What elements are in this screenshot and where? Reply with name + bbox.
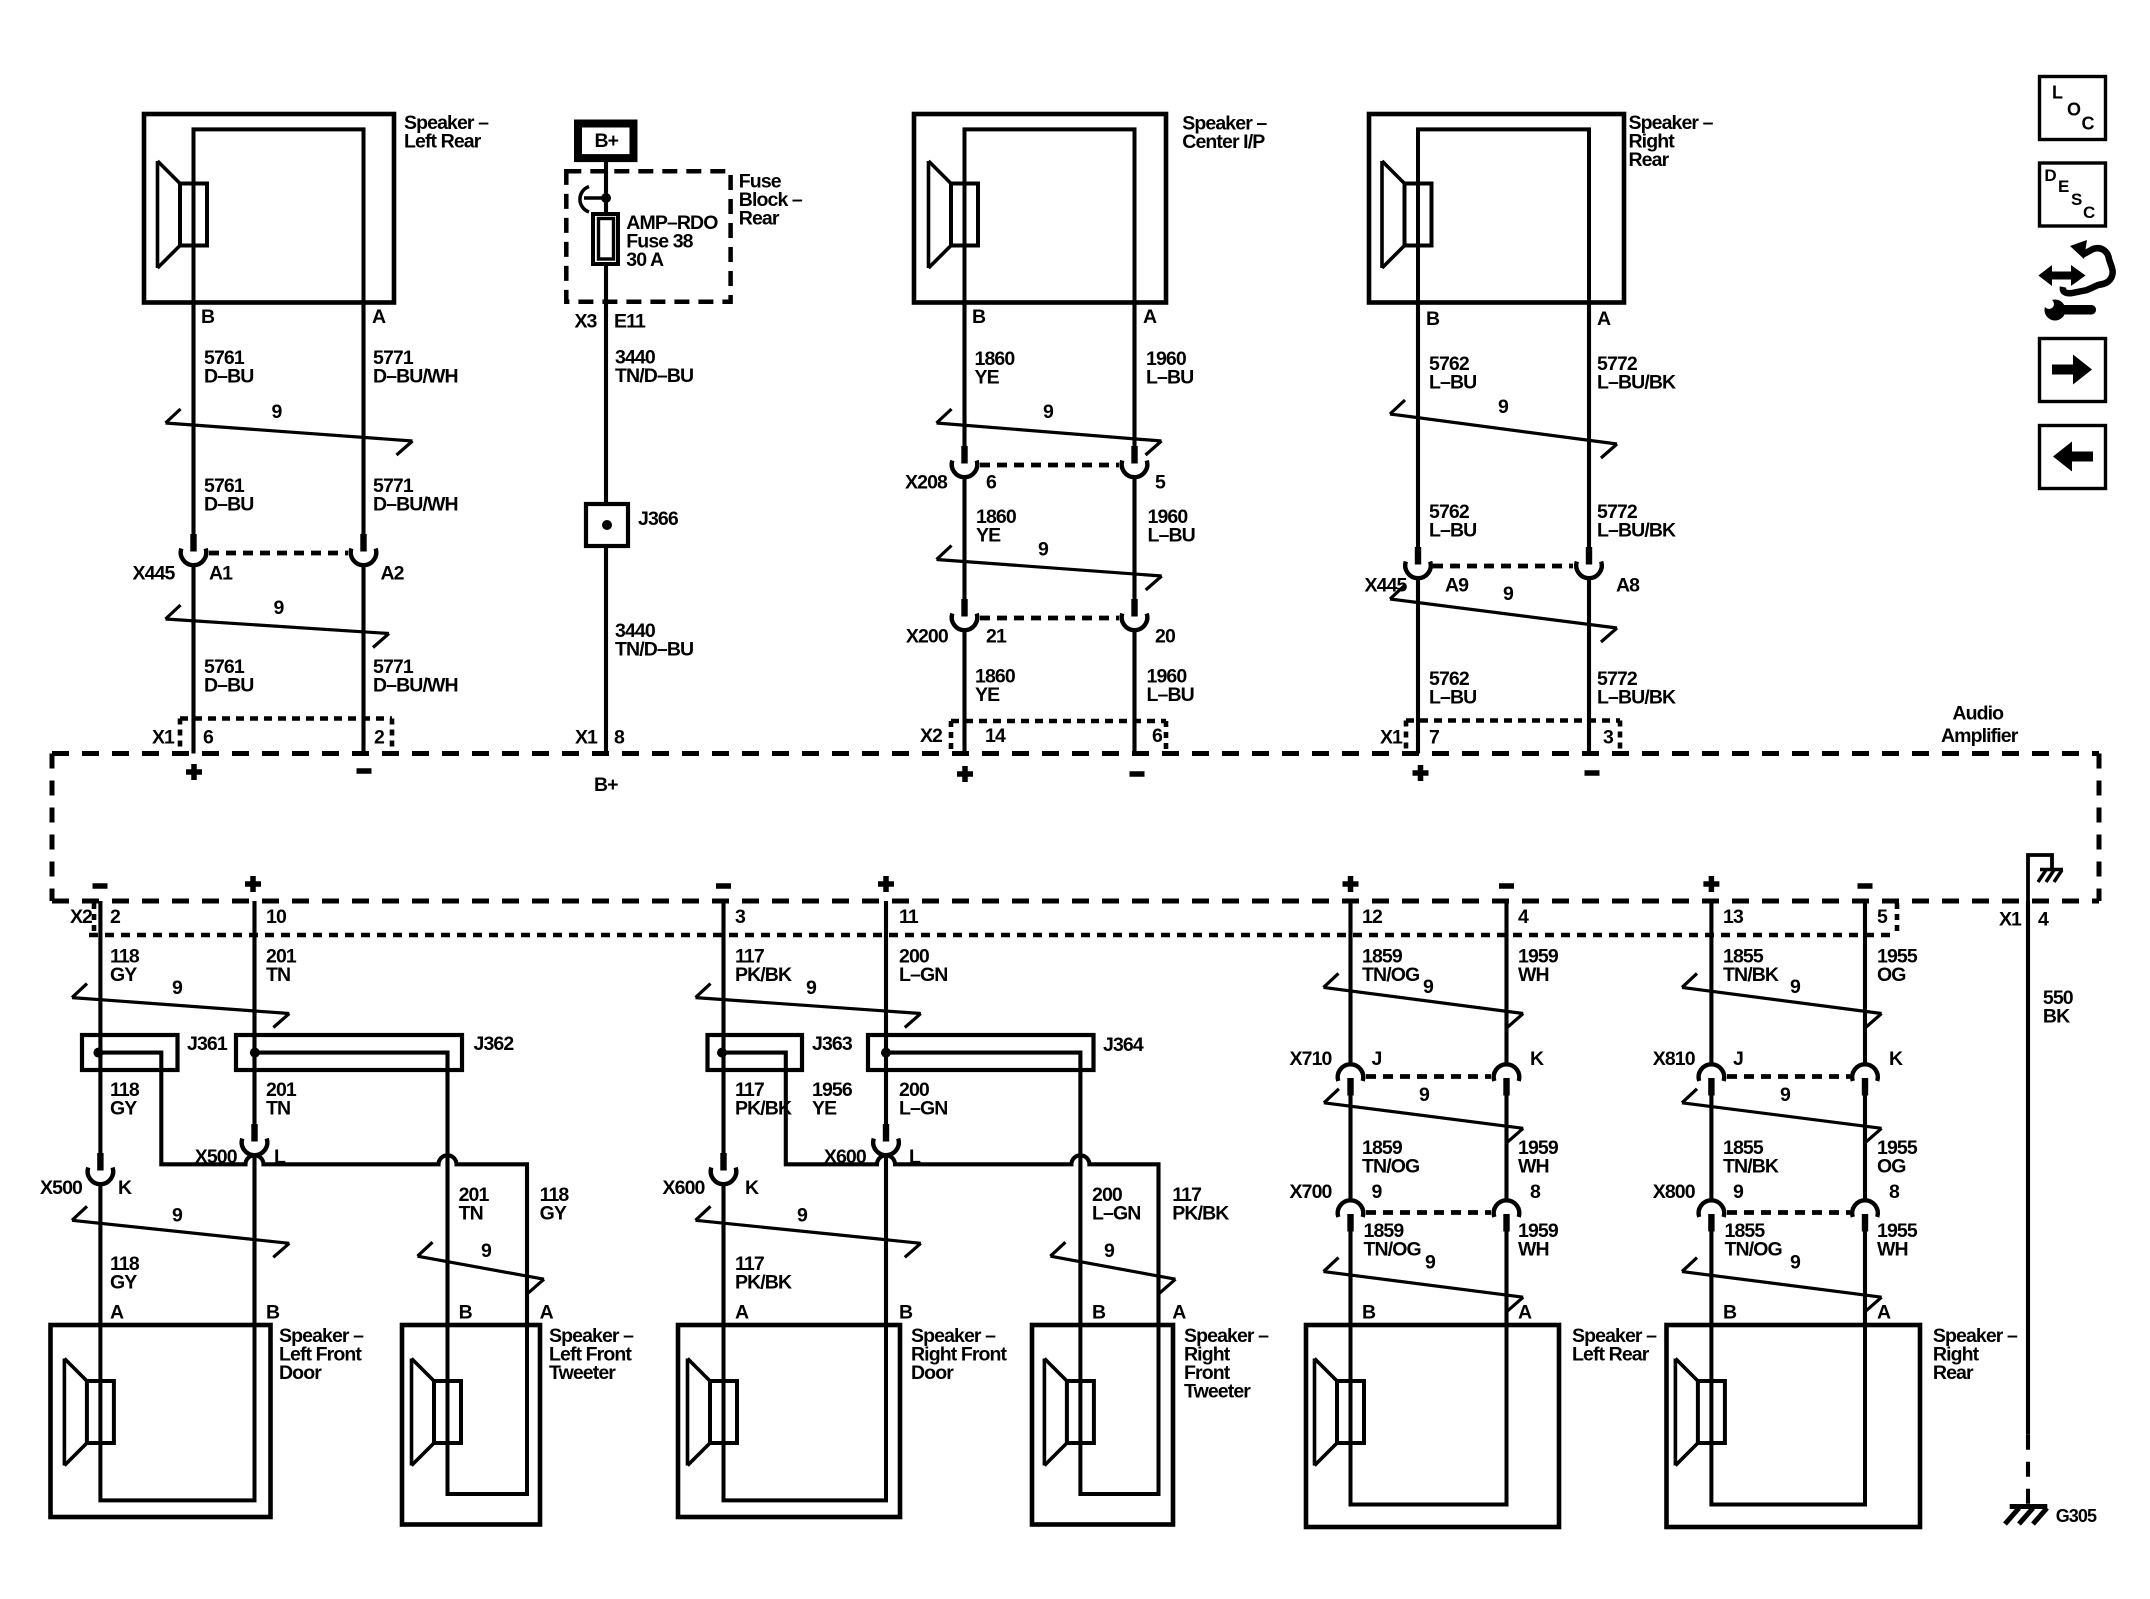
svg-text:TN/OG: TN/OG	[1362, 1156, 1419, 1178]
svg-text:YE: YE	[812, 1098, 837, 1120]
svg-text:S: S	[2071, 190, 2082, 209]
svg-text:9: 9	[1043, 401, 1054, 423]
svg-text:WH: WH	[1518, 1156, 1549, 1178]
svg-text:Left Rear: Left Rear	[404, 131, 482, 153]
svg-text:PK/BK: PK/BK	[735, 1098, 792, 1120]
svg-text:GY: GY	[540, 1203, 567, 1225]
svg-text:9: 9	[1790, 1252, 1801, 1274]
svg-text:K: K	[745, 1177, 759, 1199]
svg-text:Rear: Rear	[1933, 1362, 1974, 1384]
svg-text:2: 2	[374, 727, 385, 749]
svg-text:TN/OG: TN/OG	[1362, 964, 1419, 986]
svg-text:10: 10	[266, 906, 287, 928]
svg-text:4: 4	[1518, 906, 1529, 928]
svg-text:J362: J362	[474, 1033, 515, 1055]
svg-text:14: 14	[985, 725, 1006, 747]
svg-text:9: 9	[1425, 1252, 1436, 1274]
svg-text:B: B	[1362, 1302, 1376, 1324]
svg-text:J: J	[1372, 1048, 1382, 1070]
svg-text:9: 9	[481, 1240, 492, 1262]
svg-text:6: 6	[1152, 725, 1163, 747]
svg-text:B: B	[1426, 308, 1440, 330]
svg-text:PK/BK: PK/BK	[1172, 1203, 1229, 1225]
svg-text:L–BU: L–BU	[1429, 520, 1476, 542]
svg-text:D–BU: D–BU	[204, 494, 254, 516]
svg-text:A2: A2	[381, 563, 405, 585]
svg-text:X500: X500	[40, 1177, 83, 1199]
svg-text:K: K	[1530, 1048, 1544, 1070]
svg-text:L–BU/BK: L–BU/BK	[1597, 687, 1676, 709]
svg-text:X445: X445	[1365, 575, 1408, 597]
svg-text:X700: X700	[1290, 1181, 1333, 1203]
svg-text:X710: X710	[1290, 1048, 1333, 1070]
svg-text:A: A	[372, 306, 386, 328]
svg-text:A: A	[1877, 1302, 1891, 1324]
svg-text:J: J	[1733, 1048, 1743, 1070]
svg-text:X1: X1	[152, 727, 175, 749]
svg-text:TN: TN	[266, 1098, 290, 1120]
svg-text:GY: GY	[110, 964, 137, 986]
svg-text:L–GN: L–GN	[899, 1098, 947, 1120]
svg-text:Center I/P: Center I/P	[1182, 131, 1265, 153]
svg-text:J361: J361	[187, 1033, 228, 1055]
svg-text:TN/BK: TN/BK	[1723, 964, 1779, 986]
svg-text:WH: WH	[1877, 1239, 1908, 1261]
svg-text:X800: X800	[1653, 1181, 1696, 1203]
svg-text:YE: YE	[975, 684, 1000, 706]
svg-text:GY: GY	[110, 1272, 137, 1294]
svg-text:30 A: 30 A	[626, 249, 664, 271]
svg-text:OG: OG	[1877, 1156, 1906, 1178]
svg-text:9: 9	[1423, 976, 1434, 998]
svg-text:L–BU: L–BU	[1148, 525, 1195, 547]
svg-text:X3: X3	[574, 311, 597, 333]
svg-text:Rear: Rear	[739, 208, 780, 230]
svg-text:X2: X2	[70, 906, 93, 928]
svg-text:BK: BK	[2043, 1006, 2070, 1028]
svg-text:B+: B+	[594, 774, 618, 796]
svg-text:TN/D–BU: TN/D–BU	[615, 639, 693, 661]
svg-text:O: O	[2067, 100, 2081, 120]
svg-text:Door: Door	[279, 1362, 322, 1384]
svg-text:L: L	[909, 1146, 921, 1168]
svg-text:20: 20	[1155, 626, 1176, 648]
svg-text:YE: YE	[976, 525, 1001, 547]
svg-text:D: D	[2044, 166, 2056, 185]
svg-text:OG: OG	[1877, 964, 1906, 986]
svg-text:WH: WH	[1518, 964, 1549, 986]
svg-text:3: 3	[1603, 727, 1614, 749]
svg-text:B: B	[201, 306, 215, 328]
svg-text:X1: X1	[1380, 727, 1403, 749]
svg-text:J366: J366	[638, 508, 679, 530]
svg-text:WH: WH	[1518, 1239, 1549, 1261]
svg-text:9: 9	[1780, 1084, 1791, 1106]
svg-text:8: 8	[614, 727, 625, 749]
svg-text:7: 7	[1429, 727, 1439, 749]
svg-text:Left Rear: Left Rear	[1572, 1344, 1650, 1366]
svg-text:TN: TN	[266, 964, 290, 986]
svg-text:TN/OG: TN/OG	[1364, 1239, 1421, 1261]
svg-text:TN/OG: TN/OG	[1725, 1239, 1782, 1261]
svg-text:Door: Door	[911, 1362, 954, 1384]
svg-text:5: 5	[1155, 472, 1166, 494]
svg-text:L: L	[2052, 83, 2063, 103]
svg-text:X600: X600	[663, 1177, 706, 1199]
svg-text:X1: X1	[575, 727, 598, 749]
svg-text:J364: J364	[1103, 1034, 1144, 1056]
svg-text:L–BU: L–BU	[1146, 367, 1193, 389]
svg-text:D–BU: D–BU	[204, 366, 254, 388]
svg-text:8: 8	[1530, 1181, 1541, 1203]
svg-text:A: A	[1172, 1302, 1186, 1324]
svg-text:A9: A9	[1445, 575, 1469, 597]
svg-text:X500: X500	[195, 1146, 238, 1168]
svg-text:Amplifier: Amplifier	[1941, 725, 2019, 747]
svg-text:X2: X2	[920, 725, 943, 747]
svg-text:X810: X810	[1653, 1048, 1696, 1070]
svg-text:Tweeter: Tweeter	[1184, 1381, 1251, 1403]
svg-text:YE: YE	[975, 367, 1000, 389]
svg-text:C: C	[2082, 114, 2095, 134]
svg-text:21: 21	[986, 626, 1007, 648]
svg-text:9: 9	[1790, 976, 1801, 998]
svg-text:A8: A8	[1616, 575, 1640, 597]
svg-text:TN/D–BU: TN/D–BU	[615, 365, 693, 387]
svg-text:D–BU/WH: D–BU/WH	[373, 494, 458, 516]
svg-text:9: 9	[272, 401, 283, 423]
svg-text:9: 9	[1498, 396, 1509, 418]
svg-text:D–BU: D–BU	[204, 675, 254, 697]
svg-text:11: 11	[899, 906, 919, 928]
svg-text:A1: A1	[209, 563, 233, 585]
svg-text:9: 9	[172, 977, 183, 999]
svg-text:9: 9	[1372, 1181, 1383, 1203]
svg-text:B: B	[972, 306, 986, 328]
svg-text:B: B	[459, 1302, 473, 1324]
svg-text:A: A	[1518, 1302, 1532, 1324]
svg-text:X208: X208	[905, 472, 948, 494]
svg-text:Tweeter: Tweeter	[549, 1362, 616, 1384]
svg-text:9: 9	[274, 597, 285, 619]
svg-text:B: B	[1092, 1302, 1106, 1324]
svg-text:L–BU/BK: L–BU/BK	[1597, 372, 1676, 394]
svg-text:E11: E11	[614, 311, 646, 333]
svg-text:B: B	[899, 1302, 913, 1324]
svg-text:5: 5	[1877, 906, 1888, 928]
svg-text:D–BU/WH: D–BU/WH	[373, 366, 458, 388]
svg-text:X600: X600	[824, 1146, 867, 1168]
svg-text:D–BU/WH: D–BU/WH	[373, 675, 458, 697]
svg-text:A: A	[1597, 308, 1611, 330]
svg-text:L–GN: L–GN	[1092, 1203, 1140, 1225]
svg-text:9: 9	[1419, 1084, 1430, 1106]
svg-text:J363: J363	[812, 1033, 853, 1055]
svg-text:L: L	[274, 1146, 286, 1168]
svg-text:9: 9	[1104, 1240, 1115, 1262]
svg-text:L–BU: L–BU	[1429, 372, 1476, 394]
svg-text:Audio: Audio	[1952, 703, 2004, 725]
svg-text:L–BU: L–BU	[1429, 687, 1476, 709]
svg-text:PK/BK: PK/BK	[735, 1272, 792, 1294]
svg-text:9: 9	[806, 977, 817, 999]
svg-text:L–BU/BK: L–BU/BK	[1597, 520, 1676, 542]
svg-text:6: 6	[203, 727, 214, 749]
svg-text:3: 3	[735, 906, 746, 928]
svg-text:9: 9	[1503, 583, 1514, 605]
svg-text:B: B	[266, 1302, 280, 1324]
svg-text:L–BU: L–BU	[1147, 684, 1194, 706]
svg-text:9: 9	[797, 1205, 808, 1227]
svg-text:TN/BK: TN/BK	[1723, 1156, 1779, 1178]
svg-text:8: 8	[1889, 1181, 1900, 1203]
svg-text:9: 9	[1733, 1181, 1744, 1203]
svg-text:4: 4	[2038, 909, 2049, 931]
svg-text:9: 9	[172, 1205, 183, 1227]
svg-text:13: 13	[1723, 906, 1744, 928]
svg-text:B: B	[1723, 1302, 1737, 1324]
svg-text:2: 2	[110, 906, 121, 928]
svg-text:PK/BK: PK/BK	[735, 964, 792, 986]
svg-text:A: A	[540, 1302, 554, 1324]
svg-text:9: 9	[1038, 539, 1049, 561]
svg-text:X445: X445	[133, 563, 176, 585]
svg-text:12: 12	[1362, 906, 1383, 928]
svg-text:TN: TN	[459, 1203, 483, 1225]
svg-text:B+: B+	[595, 130, 619, 152]
svg-text:X1: X1	[1999, 909, 2022, 931]
svg-text:6: 6	[986, 472, 997, 494]
svg-text:A: A	[110, 1302, 124, 1324]
svg-text:A: A	[1143, 306, 1157, 328]
svg-text:L–GN: L–GN	[899, 964, 947, 986]
svg-text:A: A	[735, 1302, 749, 1324]
svg-text:GY: GY	[110, 1098, 137, 1120]
svg-text:K: K	[118, 1177, 132, 1199]
svg-text:X200: X200	[906, 626, 949, 648]
svg-text:C: C	[2083, 203, 2095, 222]
svg-text:E: E	[2058, 177, 2069, 196]
svg-text:K: K	[1889, 1048, 1903, 1070]
svg-text:G305: G305	[2056, 1506, 2097, 1526]
svg-text:Rear: Rear	[1629, 149, 1670, 171]
